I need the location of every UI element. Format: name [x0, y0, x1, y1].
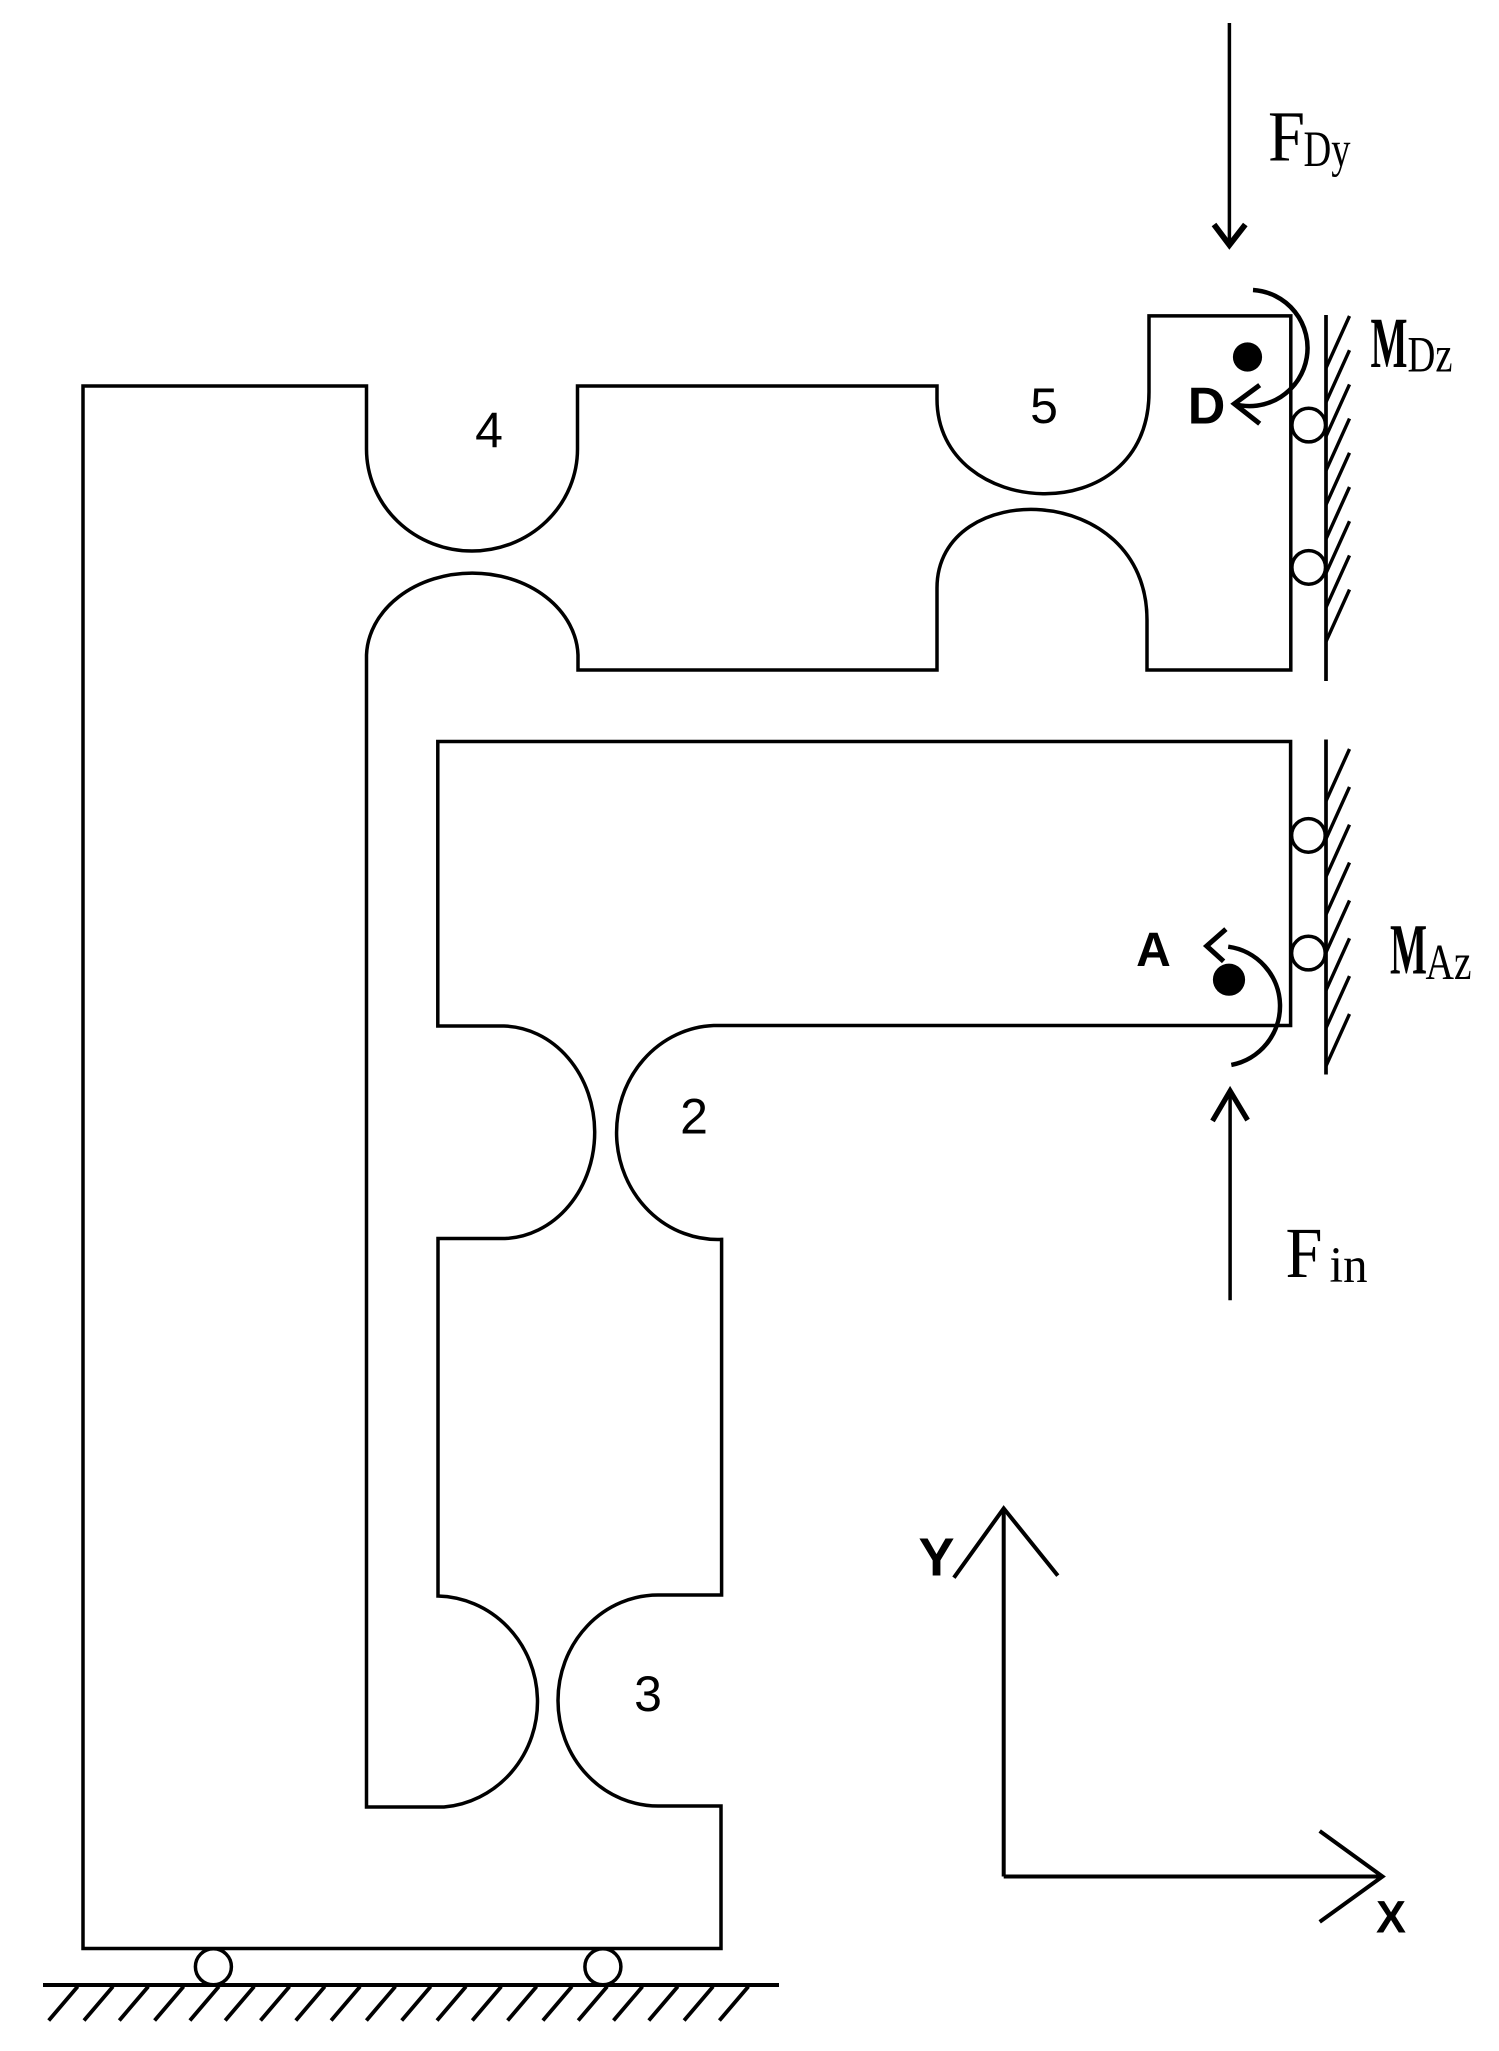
svg-text:Y: Y: [918, 1527, 954, 1587]
svg-text:Dz: Dz: [1408, 328, 1453, 384]
svg-text:3: 3: [634, 1666, 662, 1722]
svg-text:X: X: [1376, 1892, 1406, 1943]
svg-text:4: 4: [475, 402, 503, 458]
svg-text:in: in: [1330, 1238, 1368, 1294]
svg-text:2: 2: [680, 1088, 708, 1144]
svg-text:Az: Az: [1426, 935, 1472, 991]
svg-text:A: A: [1136, 924, 1171, 977]
svg-text:M: M: [1390, 910, 1427, 990]
svg-text:5: 5: [1030, 378, 1058, 434]
svg-text:F: F: [1286, 1213, 1323, 1293]
svg-text:Dy: Dy: [1304, 122, 1351, 178]
svg-text:F: F: [1268, 97, 1305, 177]
svg-text:D: D: [1188, 378, 1226, 436]
svg-text:M: M: [1371, 303, 1408, 383]
